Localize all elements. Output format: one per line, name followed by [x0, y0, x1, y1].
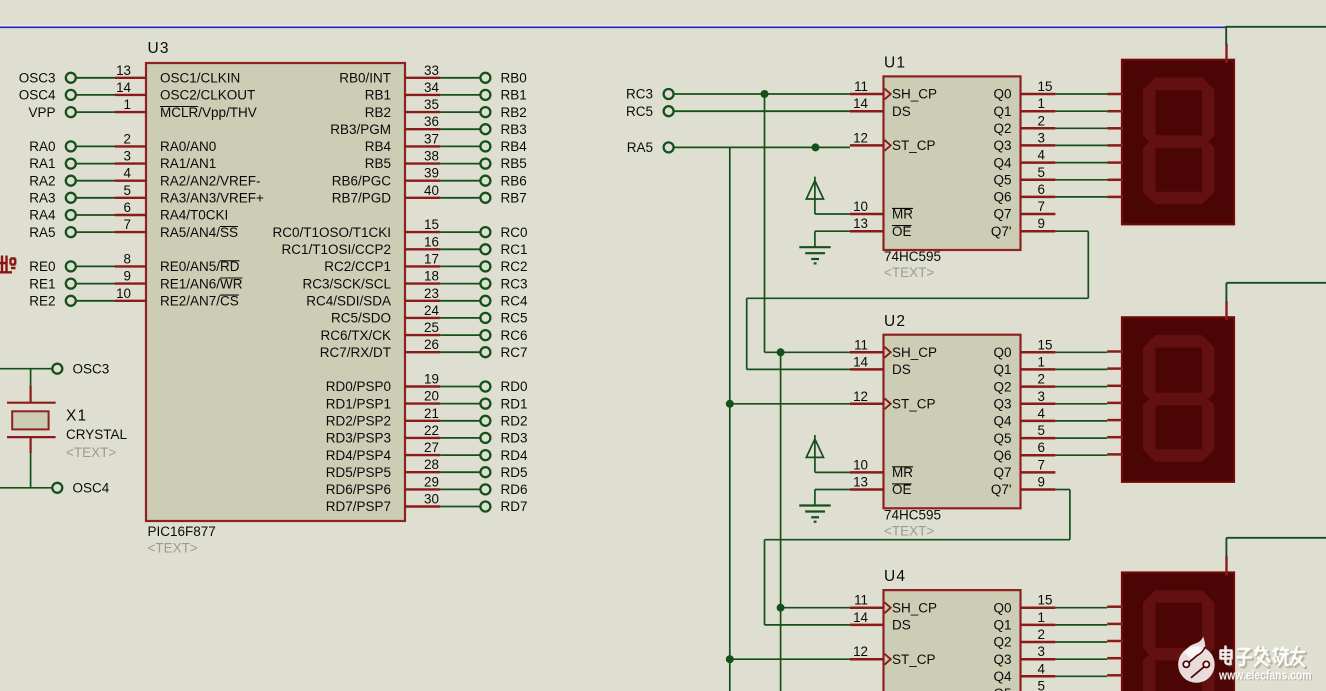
svg-text:RC4/SDI/SDA: RC4/SDI/SDA [306, 293, 391, 308]
svg-text:Q2: Q2 [993, 635, 1011, 650]
svg-text:RA1/AN1: RA1/AN1 [160, 156, 216, 171]
svg-text:OSC2/CLKOUT: OSC2/CLKOUT [160, 88, 255, 103]
svg-text:Q6: Q6 [993, 448, 1011, 463]
svg-text:Q1: Q1 [993, 618, 1011, 633]
svg-text:33: 33 [424, 63, 439, 78]
svg-text:MCLR/Vpp/THV: MCLR/Vpp/THV [160, 105, 257, 120]
svg-text:RA5: RA5 [627, 140, 653, 155]
svg-text:RD1: RD1 [501, 396, 528, 411]
svg-text:RB0: RB0 [501, 71, 527, 86]
svg-text:RD2: RD2 [501, 414, 528, 429]
svg-text:RB0/INT: RB0/INT [339, 71, 391, 86]
svg-text:ST_CP: ST_CP [892, 652, 936, 667]
svg-text:RD0: RD0 [501, 379, 528, 394]
svg-text:OSC4: OSC4 [19, 88, 56, 103]
svg-text:74HC595: 74HC595 [884, 249, 941, 264]
svg-text:RB5: RB5 [365, 156, 391, 171]
svg-text:35: 35 [424, 97, 439, 112]
svg-text:3: 3 [1038, 130, 1045, 145]
svg-text:RC5: RC5 [501, 311, 528, 326]
svg-text:6: 6 [124, 200, 131, 215]
svg-text:RC7: RC7 [501, 345, 528, 360]
svg-text:12: 12 [853, 389, 868, 404]
svg-text:U1: U1 [884, 55, 906, 72]
svg-text:10: 10 [853, 199, 868, 214]
svg-text:RE2: RE2 [29, 293, 55, 308]
svg-text:<TEXT>: <TEXT> [884, 523, 934, 538]
svg-text:RE0: RE0 [29, 259, 55, 274]
svg-text:3: 3 [1038, 389, 1045, 404]
svg-text:MR: MR [892, 465, 913, 480]
svg-text:Q4: Q4 [993, 155, 1012, 170]
svg-text:Q0: Q0 [993, 345, 1011, 360]
svg-text:U2: U2 [884, 313, 906, 330]
svg-text:RA2: RA2 [29, 173, 55, 188]
svg-text:11: 11 [854, 337, 868, 352]
svg-text:RC0/T1OSO/T1CKI: RC0/T1OSO/T1CKI [272, 225, 391, 240]
svg-text:RD3/PSP3: RD3/PSP3 [326, 431, 391, 446]
svg-text:6: 6 [1038, 182, 1045, 197]
svg-text:RD4: RD4 [501, 448, 528, 463]
svg-text:<TEXT>: <TEXT> [884, 265, 934, 280]
svg-text:1: 1 [1038, 610, 1045, 625]
svg-text:RC6: RC6 [501, 328, 528, 343]
svg-text:26: 26 [424, 337, 439, 352]
svg-text:10: 10 [116, 286, 131, 301]
svg-text:25: 25 [424, 320, 439, 335]
svg-text:38: 38 [424, 149, 439, 164]
svg-text:24: 24 [424, 303, 439, 318]
svg-text:30: 30 [424, 492, 439, 507]
svg-text:21: 21 [424, 406, 439, 421]
svg-text:OE: OE [892, 482, 912, 497]
svg-text:34: 34 [424, 80, 439, 95]
svg-text:13: 13 [116, 63, 131, 78]
svg-text:RA1: RA1 [29, 156, 55, 171]
svg-text:SH_CP: SH_CP [892, 345, 937, 360]
svg-text:Q6: Q6 [993, 190, 1011, 205]
svg-text:RB5: RB5 [501, 156, 527, 171]
svg-text:RC1/T1OSI/CCP2: RC1/T1OSI/CCP2 [281, 242, 391, 257]
svg-text:1: 1 [124, 97, 131, 112]
svg-text:Q5: Q5 [993, 431, 1011, 446]
svg-text:Q7: Q7 [993, 207, 1011, 222]
svg-text:RB3: RB3 [501, 122, 527, 137]
svg-text:14: 14 [853, 354, 868, 369]
svg-text:<TEXT>: <TEXT> [148, 541, 198, 556]
svg-text:RC3: RC3 [626, 87, 653, 102]
svg-text:3: 3 [124, 149, 131, 164]
svg-text:1: 1 [1038, 354, 1045, 369]
svg-text:4: 4 [1038, 661, 1046, 676]
svg-text:23: 23 [424, 286, 439, 301]
svg-text:RA0: RA0 [29, 139, 55, 154]
svg-text:RC1: RC1 [501, 242, 528, 257]
svg-text:37: 37 [424, 131, 439, 146]
svg-text:OSC4: OSC4 [73, 481, 110, 496]
svg-text:29: 29 [424, 474, 439, 489]
svg-text:22: 22 [424, 423, 439, 438]
svg-text:PIC16F877: PIC16F877 [148, 524, 216, 539]
svg-text:DS: DS [892, 618, 911, 633]
svg-text:RC3: RC3 [501, 276, 528, 291]
svg-text:Q4: Q4 [993, 414, 1012, 429]
svg-text:RC3/SCK/SCL: RC3/SCK/SCL [302, 276, 391, 291]
svg-text:Q5: Q5 [993, 686, 1011, 691]
svg-text:18: 18 [424, 269, 439, 284]
svg-text:RD0/PSP0: RD0/PSP0 [326, 379, 391, 394]
svg-text:1: 1 [1038, 96, 1045, 111]
svg-text:RA0/AN0: RA0/AN0 [160, 139, 216, 154]
svg-text:Q1: Q1 [993, 104, 1011, 119]
svg-text:5: 5 [1038, 423, 1045, 438]
svg-text:20: 20 [424, 389, 439, 404]
svg-text:RC6/TX/CK: RC6/TX/CK [320, 328, 391, 343]
svg-text:RB6: RB6 [501, 173, 527, 188]
svg-text:RB1: RB1 [501, 88, 527, 103]
svg-text:4: 4 [1038, 406, 1046, 421]
svg-text:RB7/PGD: RB7/PGD [332, 191, 392, 206]
svg-text:4: 4 [1038, 148, 1046, 163]
svg-text:VPP: VPP [28, 105, 55, 120]
svg-text:RB3/PGM: RB3/PGM [330, 122, 391, 137]
svg-text:RC5: RC5 [626, 104, 653, 119]
svg-text:17: 17 [424, 251, 439, 266]
svg-text:Q0: Q0 [993, 600, 1011, 615]
svg-text:OSC3: OSC3 [73, 362, 110, 377]
svg-text:X1: X1 [66, 408, 87, 425]
svg-text:8: 8 [124, 251, 131, 266]
svg-text:39: 39 [424, 166, 439, 181]
svg-text:9: 9 [1038, 216, 1045, 231]
svg-text:RD1/PSP1: RD1/PSP1 [326, 396, 391, 411]
svg-text:7: 7 [124, 217, 131, 232]
svg-text:7: 7 [1038, 457, 1045, 472]
svg-text:DS: DS [892, 104, 911, 119]
svg-text:SH_CP: SH_CP [892, 600, 937, 615]
svg-text:14: 14 [116, 80, 131, 95]
svg-text:www.elecfans.com: www.elecfans.com [1218, 669, 1311, 683]
svg-text:RB2: RB2 [501, 105, 527, 120]
svg-text:2: 2 [1038, 372, 1045, 387]
svg-text:27: 27 [424, 440, 439, 455]
svg-text:RD6: RD6 [501, 482, 528, 497]
svg-text:RC7/RX/DT: RC7/RX/DT [320, 345, 391, 360]
svg-text:RE0/AN5/RD: RE0/AN5/RD [160, 259, 240, 274]
svg-text:Q7: Q7 [993, 465, 1011, 480]
svg-text:7: 7 [1038, 199, 1045, 214]
svg-text:4: 4 [124, 166, 132, 181]
svg-text:RE1: RE1 [29, 276, 55, 291]
svg-text:RC2/CCP1: RC2/CCP1 [324, 259, 391, 274]
svg-text:Q3: Q3 [993, 396, 1011, 411]
svg-text:RC2: RC2 [501, 259, 528, 274]
svg-text:OSC3: OSC3 [19, 71, 56, 86]
svg-text:19: 19 [424, 372, 439, 387]
svg-text:13: 13 [853, 475, 868, 490]
svg-text:Q3: Q3 [993, 138, 1011, 153]
svg-text:14: 14 [853, 610, 868, 625]
svg-text:40: 40 [424, 183, 439, 198]
svg-text:Q1: Q1 [993, 362, 1011, 377]
svg-text:Q4: Q4 [993, 669, 1012, 684]
svg-text:74HC595: 74HC595 [884, 507, 941, 522]
svg-text:16: 16 [424, 234, 439, 249]
svg-text:RD7: RD7 [501, 499, 528, 514]
svg-text:RB7: RB7 [501, 191, 527, 206]
svg-text:15: 15 [1038, 337, 1053, 352]
svg-text:CRYSTAL: CRYSTAL [66, 427, 128, 442]
svg-text:3: 3 [1038, 644, 1045, 659]
svg-text:11: 11 [854, 79, 868, 94]
svg-text:RA4/T0CKI: RA4/T0CKI [160, 208, 228, 223]
svg-text:RD7/PSP7: RD7/PSP7 [326, 499, 391, 514]
svg-text:Q7': Q7' [991, 482, 1012, 497]
svg-text:14: 14 [853, 96, 868, 111]
svg-text:SH_CP: SH_CP [892, 87, 937, 102]
svg-text:9: 9 [124, 269, 131, 284]
svg-text:Q2: Q2 [993, 121, 1011, 136]
svg-text:RC5/SDO: RC5/SDO [331, 311, 391, 326]
svg-text:OSC1/CLKIN: OSC1/CLKIN [160, 71, 240, 86]
svg-text:RA2/AN2/VREF-: RA2/AN2/VREF- [160, 173, 261, 188]
svg-text:RD4/PSP4: RD4/PSP4 [326, 448, 392, 463]
svg-text:Q5: Q5 [993, 172, 1011, 187]
svg-text:RD2/PSP2: RD2/PSP2 [326, 414, 391, 429]
svg-text:12: 12 [853, 644, 868, 659]
svg-text:2: 2 [1038, 627, 1045, 642]
svg-text:Q7': Q7' [991, 224, 1012, 239]
svg-text:RD6/PSP6: RD6/PSP6 [326, 482, 391, 497]
svg-text:RA3/AN3/VREF+: RA3/AN3/VREF+ [160, 191, 264, 206]
svg-text:ST_CP: ST_CP [892, 138, 936, 153]
svg-text:15: 15 [1038, 79, 1053, 94]
svg-text:RD3: RD3 [501, 431, 528, 446]
svg-text:RA4: RA4 [29, 208, 56, 223]
svg-text:10: 10 [853, 457, 868, 472]
svg-text:RD5: RD5 [501, 465, 528, 480]
svg-text:RB1: RB1 [365, 88, 391, 103]
svg-text:36: 36 [424, 114, 439, 129]
svg-text:12: 12 [853, 130, 868, 145]
svg-text:5: 5 [1038, 679, 1045, 691]
svg-text:ST_CP: ST_CP [892, 396, 936, 411]
svg-text:6: 6 [1038, 440, 1045, 455]
svg-text:Q2: Q2 [993, 379, 1011, 394]
svg-text:Q3: Q3 [993, 652, 1011, 667]
svg-text:5: 5 [124, 183, 131, 198]
svg-text:U4: U4 [884, 568, 906, 585]
svg-text:15: 15 [424, 217, 439, 232]
svg-text:2: 2 [1038, 113, 1045, 128]
svg-text:11: 11 [854, 593, 868, 608]
svg-text:Q0: Q0 [993, 87, 1011, 102]
svg-text:RA3: RA3 [29, 191, 55, 206]
svg-text:RA5: RA5 [29, 225, 55, 240]
svg-text:RB4: RB4 [501, 139, 528, 154]
svg-text:13: 13 [853, 216, 868, 231]
svg-text:RB2: RB2 [365, 105, 391, 120]
svg-text:28: 28 [424, 457, 439, 472]
svg-text:5: 5 [1038, 165, 1045, 180]
svg-text:RC0: RC0 [501, 225, 528, 240]
svg-text:9: 9 [1038, 475, 1045, 490]
svg-text:DS: DS [892, 362, 911, 377]
svg-text:RD5/PSP5: RD5/PSP5 [326, 465, 391, 480]
svg-text:15: 15 [1038, 593, 1053, 608]
svg-text:RB6/PGC: RB6/PGC [332, 173, 392, 188]
svg-text:<TEXT>: <TEXT> [66, 445, 116, 460]
svg-text:2: 2 [124, 131, 131, 146]
svg-text:RB4: RB4 [365, 139, 392, 154]
svg-text:U3: U3 [148, 40, 170, 57]
svg-text:RC4: RC4 [501, 293, 528, 308]
